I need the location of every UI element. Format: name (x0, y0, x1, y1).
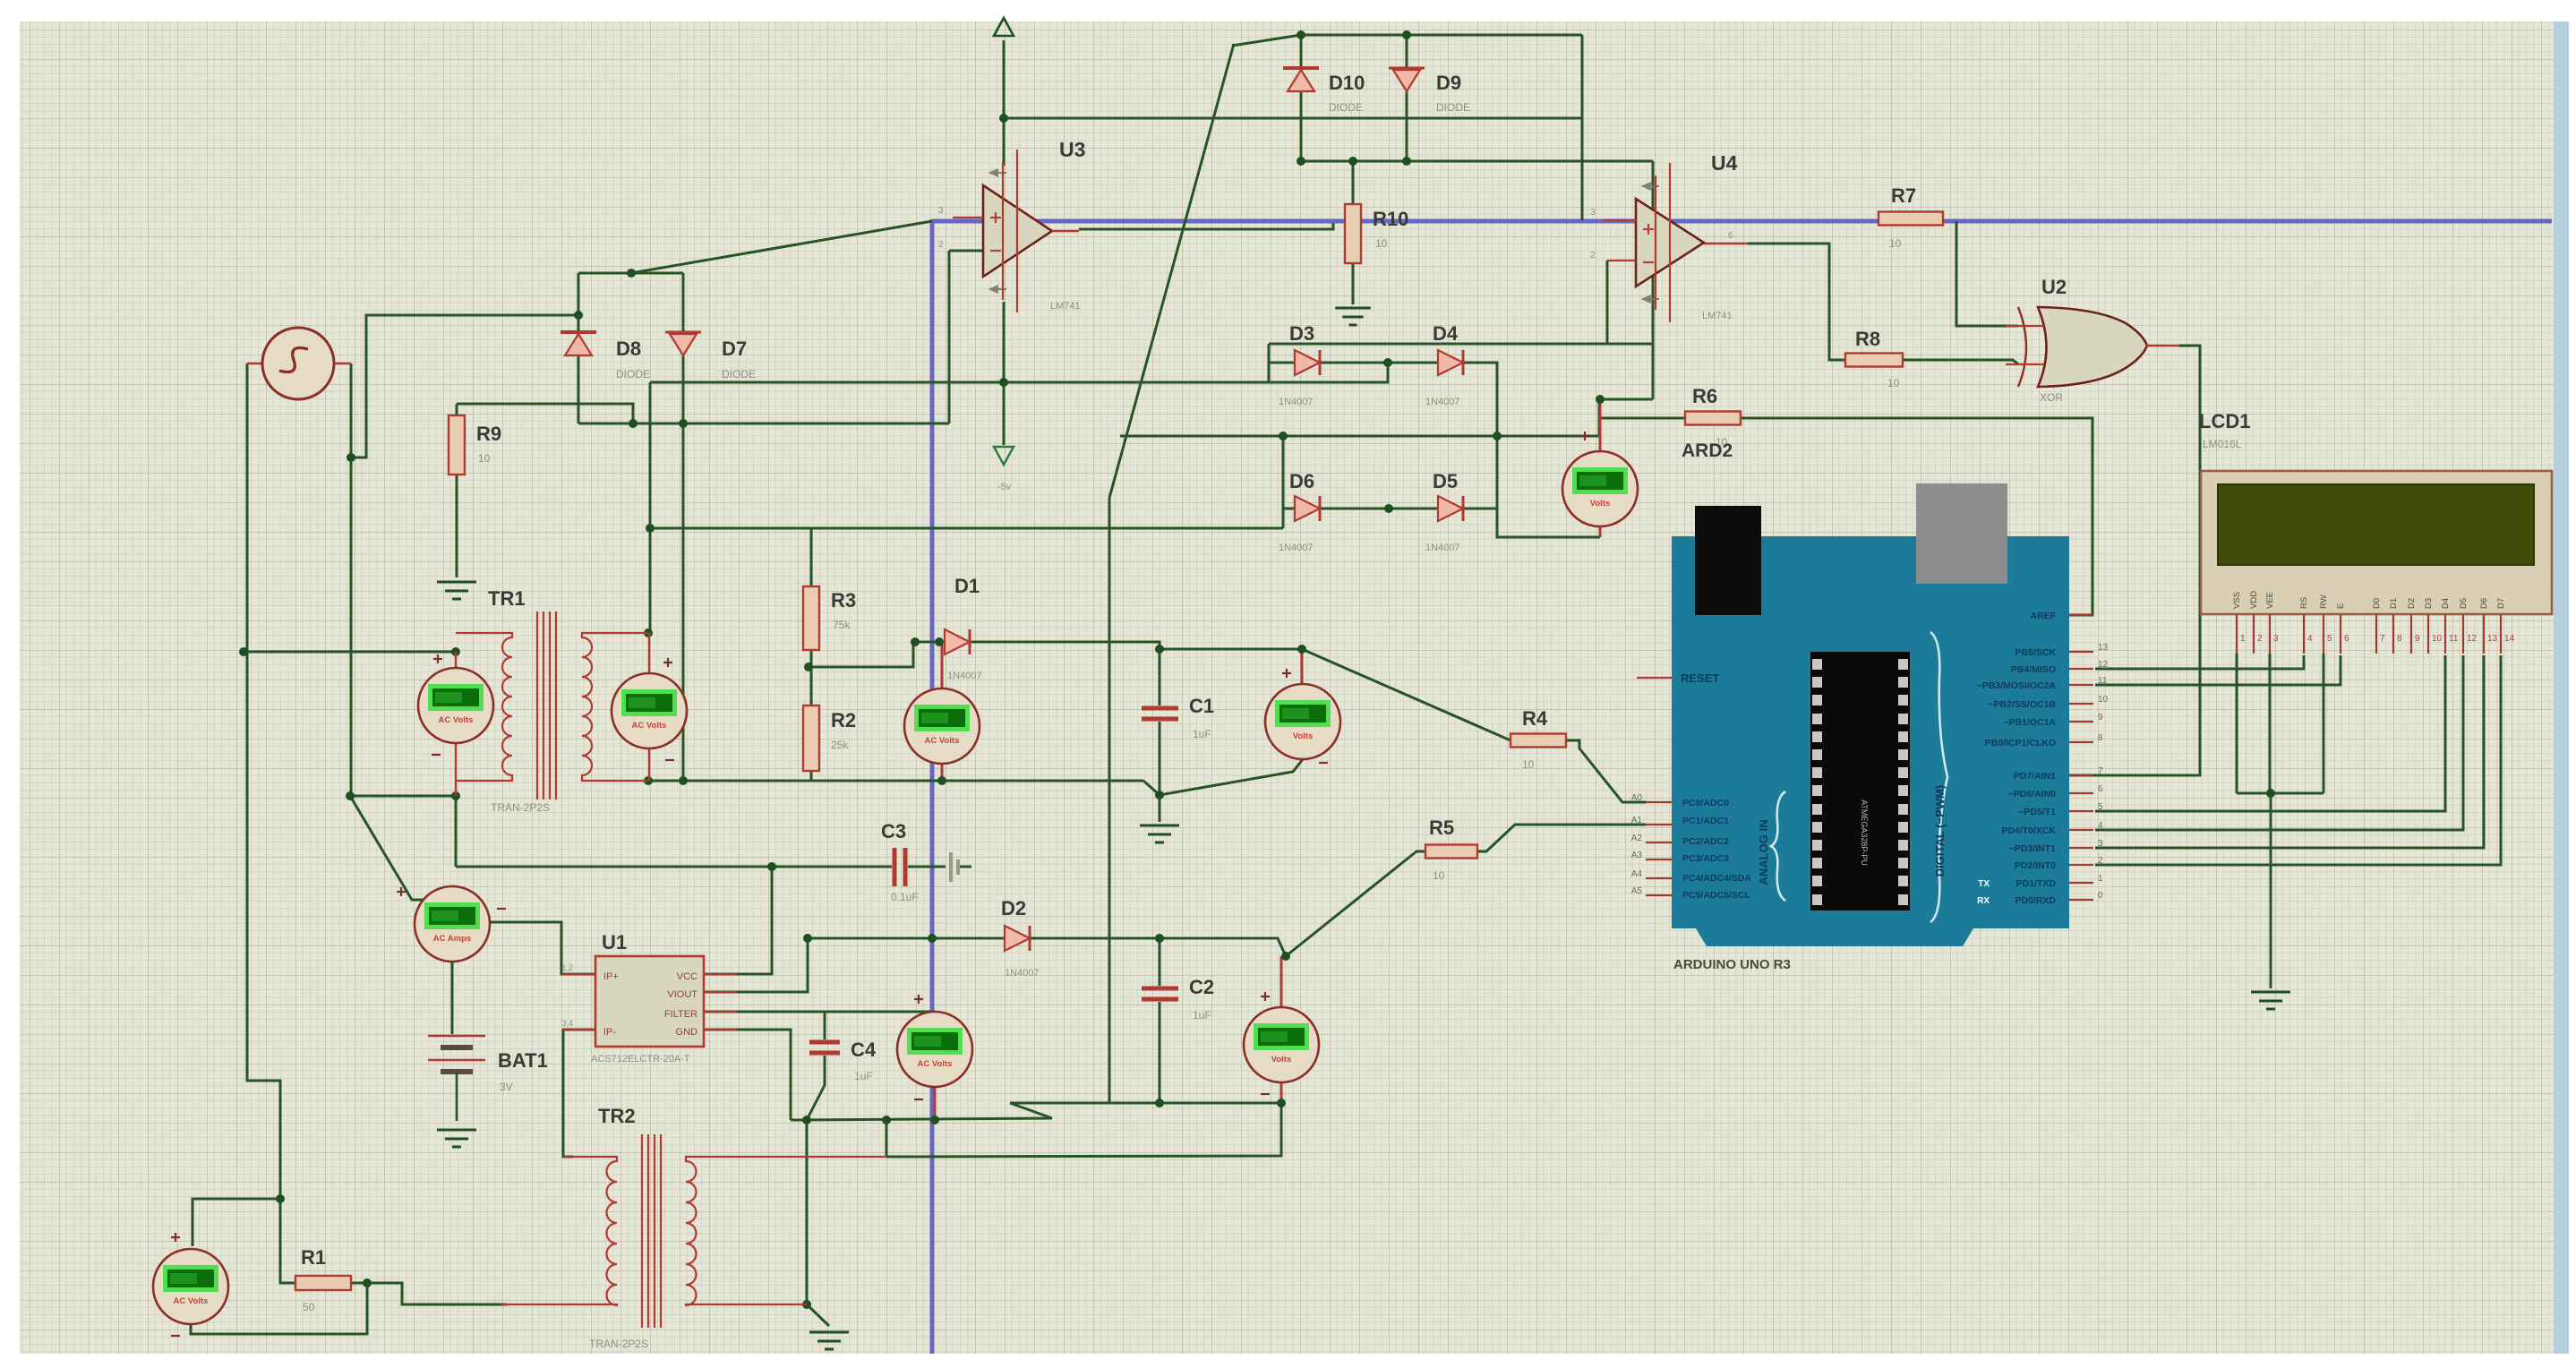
meter AC volts D1 (904, 688, 980, 764)
svg-text:GND: GND (676, 1027, 698, 1038)
wire junction at 763,473 (679, 419, 688, 428)
meter AC volts bottom left (153, 1249, 228, 1324)
svg-text:D2: D2 (1001, 897, 1026, 919)
wire C3 right stub (908, 866, 946, 868)
svg-text:~PB2/SS/OC1B: ~PB2/SS/OC1B (1988, 699, 2056, 710)
svg-text:10: 10 (1375, 237, 1388, 250)
svg-text:D3: D3 (2424, 598, 2434, 609)
svg-text:2: 2 (938, 240, 944, 250)
wire D8 D7 lower rail (578, 423, 949, 425)
wire TR1 secondary top riser (649, 382, 652, 633)
wire R9 top link (457, 404, 633, 423)
plus TR1 left meter (433, 654, 442, 663)
wire R7 to XOR input A (1956, 221, 2018, 326)
svg-text:R7: R7 (1891, 184, 1916, 207)
wire U3 VCC rail horizontal (1004, 117, 1582, 120)
svg-text:10: 10 (1887, 377, 1900, 389)
svg-text:AC Volts: AC Volts (632, 721, 667, 731)
wire TR1 bottom rail right (648, 780, 1143, 782)
diode D1 (945, 629, 970, 654)
svg-text:R10: R10 (1373, 208, 1408, 230)
plus AC amps meter (397, 887, 406, 896)
wire ARD2 meter top lead (1599, 399, 1602, 451)
wire U1 IPminus to TR2 (563, 1030, 595, 1157)
wire LCD ground rail (2237, 792, 2324, 795)
minus C4 meter (914, 1099, 923, 1100)
svg-text:R1: R1 (301, 1246, 326, 1269)
svg-text:A0: A0 (1631, 793, 1643, 803)
transformer TR2 (501, 1134, 886, 1328)
resistor R4 body (1511, 734, 1566, 748)
svg-text:D0: D0 (2372, 598, 2382, 609)
wire junction at 903,745 (804, 663, 813, 671)
svg-text:PB4/MISO: PB4/MISO (2011, 664, 2056, 675)
svg-text:5: 5 (2098, 802, 2103, 812)
svg-text:A5: A5 (1631, 886, 1643, 896)
svg-text:50: 50 (303, 1301, 315, 1313)
wire junction at 1041,1048 (928, 934, 937, 943)
wire junction at 763,872 (679, 776, 688, 785)
wire volts meter 2 top lead (1280, 956, 1283, 1007)
svg-text:3,4: 3,4 (561, 1019, 573, 1028)
svg-text:1uF: 1uF (854, 1070, 873, 1082)
svg-text:AREF: AREF (2030, 611, 2056, 621)
minus bottom left meter (171, 1335, 180, 1337)
wire +V rail to U3 power (1003, 40, 1006, 118)
svg-text:LM741: LM741 (1050, 301, 1081, 312)
diode D3 (1295, 350, 1320, 375)
meter AC volts TR1 right (612, 673, 687, 748)
wire C1 top lead (1159, 642, 1161, 705)
diode D10 (1283, 68, 1319, 91)
wire D10 bottom lead (1300, 90, 1303, 161)
wire R8 to XOR input B (1903, 360, 2018, 364)
wire D8 top lead (578, 273, 580, 332)
wire C1 rail to volts meter (1160, 648, 1302, 651)
wire to bottom meter plus (193, 1199, 280, 1246)
wire XOR output down to arduino pin 7 (2069, 346, 2200, 775)
svg-text:10: 10 (478, 452, 491, 465)
ground under R10 (1335, 308, 1371, 325)
svg-text:3: 3 (1590, 208, 1596, 218)
svg-text:RX: RX (1977, 896, 1990, 906)
capacitor C4 (809, 1042, 840, 1053)
svg-text:4: 4 (2307, 634, 2313, 644)
svg-text:R5: R5 (1429, 817, 1454, 839)
svg-text:1N4007: 1N4007 (1005, 968, 1040, 979)
svg-text:-5v: -5v (997, 482, 1012, 492)
wire junction at 313,1339 (276, 1194, 285, 1203)
svg-text:0.1uF: 0.1uF (891, 891, 919, 903)
resistor R5 body (1425, 845, 1477, 859)
svg-text:TX: TX (1978, 879, 1990, 889)
svg-text:VEE: VEE (2265, 592, 2275, 609)
wire U4 output stub (1704, 243, 1748, 244)
wire bridge D5 cathode (1463, 508, 1497, 510)
svg-text:PC4/ADC4/SDA: PC4/ADC4/SDA (1682, 873, 1751, 884)
wire AC meter C4 bottom lead (934, 1087, 937, 1120)
wire junction at 509,889 (451, 791, 460, 800)
svg-text:FILTER: FILTER (664, 1009, 697, 1020)
wire down to R1 (280, 1199, 295, 1283)
wire R6 left lead (1600, 417, 1685, 420)
svg-text:PC2/ADC2: PC2/ADC2 (1682, 836, 1729, 847)
wire TR1 right meter top lead (648, 633, 650, 674)
svg-text:PC3/ADC3: PC3/ADC3 (1682, 853, 1729, 864)
wire bridge mid rail (1120, 399, 1599, 436)
diode D6 (1295, 496, 1320, 521)
svg-text:7: 7 (2098, 766, 2103, 776)
wire TR2 ground branch (807, 1120, 829, 1326)
wire junction at 1433,487 (1279, 432, 1288, 440)
wire junction at 724,707 (644, 628, 653, 637)
wire U3 output run (1079, 223, 1333, 229)
wire R9 bottom lead (456, 475, 458, 577)
wire C4 bottom diag (807, 1056, 825, 1120)
svg-text:2: 2 (1590, 251, 1596, 261)
transformer TR1 (456, 611, 648, 799)
svg-text:PD1/TXD: PD1/TXD (2016, 878, 2057, 889)
wire U4 minus stub (1607, 260, 1636, 261)
svg-text:R6: R6 (1692, 385, 1717, 407)
svg-text:PC5/ADC5/SCL: PC5/ADC5/SCL (1682, 890, 1750, 901)
svg-text:1N4007: 1N4007 (1425, 397, 1460, 407)
wire R10 top lead (1352, 161, 1355, 204)
wire D1 output to C1 (970, 642, 1160, 649)
wire TR2 secondary to meter (1280, 1103, 1283, 1156)
wire bridge left post (1268, 344, 1271, 382)
wire R3 top lead (810, 528, 813, 586)
wire ARD2 meter bottom lead (1599, 526, 1602, 537)
resistor R9 body (449, 415, 465, 475)
op-amp U4 body (1636, 163, 1704, 322)
svg-text:DIGITAL (~PWM): DIGITAL (~PWM) (1933, 785, 1947, 876)
svg-text:E: E (2336, 603, 2346, 609)
wire D7 top lead (682, 273, 685, 332)
svg-text:D5: D5 (1433, 470, 1458, 492)
resistor R8 body (1845, 354, 1903, 367)
plus TR1 right meter (663, 658, 672, 667)
svg-text:3: 3 (2098, 839, 2103, 849)
power flag -5v arrow (994, 447, 1014, 465)
svg-text:R8: R8 (1855, 328, 1880, 350)
wire U3 negative power pin (1003, 302, 1006, 382)
wire junction at 990,1251 (882, 1116, 891, 1124)
wire R3 R2 link (810, 650, 813, 705)
diode D4 (1438, 350, 1463, 375)
svg-text:AC Volts: AC Volts (174, 1296, 209, 1306)
svg-text:D4: D4 (1433, 322, 1459, 345)
svg-text:U1: U1 (602, 931, 627, 953)
svg-text:6: 6 (2098, 784, 2103, 794)
svg-text:RESET: RESET (1681, 671, 1719, 685)
wire D10 D9 lower rail to U4 (1301, 160, 1653, 163)
wire junction at 901,1457 (802, 1300, 811, 1309)
svg-text:~PB1/OC1A: ~PB1/OC1A (2003, 717, 2056, 728)
wire arduino pin12 to LCD RS (2095, 655, 2304, 669)
svg-text:~PD5/T1: ~PD5/T1 (2018, 807, 2056, 817)
wire bridge top rail (1269, 343, 1653, 346)
ground LCD net (2251, 992, 2290, 1009)
wire LCD VEE down (2269, 654, 2272, 793)
plus C4 meter (914, 995, 923, 1004)
minus AC amps meter (497, 908, 506, 910)
svg-text:LM016L: LM016L (2203, 438, 2242, 450)
svg-text:Volts: Volts (1590, 499, 1611, 509)
wire bridge D6 D5 link (1320, 508, 1438, 510)
svg-text:~PD3/INT1: ~PD3/INT1 (2009, 843, 2056, 854)
wire VIOUT to D2 node (704, 938, 808, 992)
wire junction at 901,1251 (802, 1116, 811, 1124)
IC U1 ACS712 (595, 956, 704, 1047)
svg-text:PB5/SCK: PB5/SCK (2015, 647, 2056, 658)
svg-text:A4: A4 (1631, 869, 1643, 879)
svg-text:RW: RW (2319, 594, 2329, 609)
wire junction at 410,1433 (363, 1278, 372, 1287)
svg-text:2: 2 (2257, 634, 2263, 644)
battery BAT1 (428, 1036, 485, 1121)
wire C2 bottom run (1010, 1102, 1281, 1105)
wire AC amps meter bottom lead (451, 962, 454, 1034)
svg-text:Volts: Volts (1293, 731, 1314, 741)
wire LCD ground drop (2270, 793, 2272, 988)
wire diagonal to AC Amps meter (350, 796, 452, 900)
meter AC volts C4 (897, 1012, 972, 1087)
svg-text:D2: D2 (2407, 598, 2417, 609)
svg-text:6: 6 (1728, 231, 1733, 241)
svg-text:D7: D7 (2496, 598, 2506, 609)
svg-text:RS: RS (2299, 597, 2309, 609)
wire secondary to meter run (886, 1103, 1281, 1157)
wire D1 meter bottom lead (941, 764, 944, 781)
svg-text:BAT1: BAT1 (498, 1049, 548, 1072)
svg-text:AC Volts: AC Volts (918, 1059, 953, 1069)
svg-text:U4: U4 (1711, 151, 1738, 175)
svg-text:D1: D1 (2389, 598, 2399, 609)
svg-text:D3: D3 (1289, 322, 1314, 345)
wire D8 bottom lead (578, 355, 580, 423)
LCD1 module body (2201, 471, 2552, 614)
wire AC source left rail (247, 363, 280, 1199)
wire D2 anode run (808, 937, 1005, 940)
meter AC amps (415, 886, 490, 962)
wire FILTER to C4 (704, 1012, 825, 1039)
wire C3 right bracket stub (958, 866, 971, 868)
wire bridge D6 anode (1283, 508, 1295, 510)
arduino left pin stubs (1646, 802, 1672, 895)
svg-text:PD0/RXD: PD0/RXD (2015, 895, 2056, 906)
svg-text:C3: C3 (881, 820, 906, 842)
svg-text:D8: D8 (616, 338, 641, 360)
meter ARD2 volts (1562, 451, 1638, 526)
svg-text:DIODE: DIODE (1436, 101, 1470, 114)
svg-text:IP+: IP+ (603, 971, 619, 982)
wire bridge D3 D4 link (1320, 362, 1438, 364)
resistor R3 body (803, 586, 819, 650)
wire selected blue bus vertical (930, 219, 935, 1354)
LCD pin numbers (2240, 634, 2515, 644)
arduino right pin stubs (2069, 615, 2093, 900)
ground under C1 (1140, 825, 1179, 842)
wire R9 top lead (456, 404, 458, 415)
svg-text:0: 0 (2098, 891, 2103, 901)
svg-text:10: 10 (1433, 869, 1445, 882)
svg-text:1N4007: 1N4007 (1279, 543, 1314, 553)
capacitor C2 (1142, 988, 1178, 999)
wire R6 right to AREF (1741, 418, 2092, 615)
diode D9 (1389, 68, 1425, 91)
wire arduino pin5 to LCD D4 (2095, 655, 2445, 811)
wire sloped into U3 noninverting (631, 221, 932, 273)
wire U3 inverting stub (949, 250, 983, 252)
svg-text:14: 14 (2504, 634, 2515, 644)
svg-text:DIODE: DIODE (722, 368, 756, 380)
svg-text:AC Volts: AC Volts (925, 736, 960, 746)
wire D10 top lead (1300, 35, 1303, 68)
scrollbar strip right edge (2554, 21, 2569, 1354)
svg-text:12: 12 (2098, 660, 2109, 670)
wire D9 bottom lead (1406, 90, 1408, 161)
wire RESET stub (1637, 677, 1672, 679)
svg-text:ARDUINO UNO R3: ARDUINO UNO R3 (1673, 957, 1791, 972)
wire junction at 272,728 (239, 647, 248, 656)
svg-text:PB0/ICP1/CLKO: PB0/ICP1/CLKO (1985, 738, 2056, 748)
wire junction at 1295,888 (1155, 791, 1164, 799)
minus TR1 right meter (665, 759, 674, 761)
wire junction at 1295,1048 (1155, 934, 1164, 943)
wire TR1 left meter bottom lead (455, 742, 457, 796)
svg-text:9: 9 (2098, 713, 2103, 722)
svg-text:TR1: TR1 (488, 587, 526, 610)
wire bridge lower post (1282, 436, 1285, 528)
wire junction at 705,305 (627, 269, 636, 278)
wire -5v flag stem (1003, 382, 1006, 445)
svg-text:3V: 3V (500, 1081, 513, 1093)
wire arduino pin3 to LCD D6 (2095, 655, 2484, 848)
wire D2 cathode to C2 (1029, 937, 1160, 940)
wire U4 output (1748, 244, 1845, 360)
resistor R10 body (1345, 204, 1361, 263)
wire junction at 646,352 (574, 311, 583, 320)
svg-text:12: 12 (2467, 634, 2478, 644)
wire junction to D1 (809, 642, 939, 667)
wire C2 to meter junction (1160, 938, 1286, 956)
wire junction at 1052,872 (937, 776, 946, 785)
wire LCD RW down (2323, 654, 2325, 793)
meter volts lower (1244, 1007, 1319, 1082)
svg-text:2: 2 (2098, 856, 2103, 866)
wire R3 feed rail (650, 527, 1283, 530)
svg-text:75k: 75k (833, 619, 851, 631)
wire R2 bottom lead (810, 771, 813, 781)
wire TR2 secondary top riser (886, 1120, 888, 1157)
diode D8 (561, 332, 596, 355)
XOR gate U2 (2006, 307, 2179, 387)
svg-text:ACS712ELCTR-20A-T: ACS712ELCTR-20A-T (591, 1054, 690, 1064)
svg-text:10: 10 (2432, 634, 2443, 644)
wire AC source to D8 junction (351, 315, 578, 457)
svg-text:11: 11 (2449, 634, 2459, 644)
op-amp U3 body (983, 150, 1052, 312)
wire D1 meter top lead (941, 642, 944, 688)
wire U3 output stub (1052, 230, 1079, 232)
wire R4 to A0 (1566, 740, 1646, 802)
wire U3 positive power pin (1003, 118, 1006, 166)
svg-text:3: 3 (2273, 634, 2279, 644)
ground under R9 (437, 582, 476, 599)
resistor R6 body (1685, 412, 1741, 425)
resistor R2 body (803, 705, 819, 771)
svg-text:VCC: VCC (677, 971, 697, 982)
svg-text:XOR: XOR (2040, 391, 2063, 404)
svg-text:PC1/ADC1: PC1/ADC1 (1682, 816, 1729, 826)
svg-text:PD2/INT0: PD2/INT0 (2015, 860, 2056, 871)
wire U4 inverting loop (1606, 261, 1609, 344)
svg-text:1: 1 (2098, 874, 2103, 884)
wire long diagonal from top rail (1109, 44, 1234, 498)
svg-text:ATMEGA328P-PU: ATMEGA328P-PU (1860, 799, 1869, 866)
svg-text:1,2: 1,2 (561, 963, 573, 972)
wire U4 right vertical (1652, 161, 1655, 399)
wire junction at 1295,725 (1155, 645, 1164, 654)
wire Z jog to C2 line (1010, 1103, 1052, 1118)
svg-text:PD4/T0/XCK: PD4/T0/XCK (2001, 825, 2056, 836)
wire bridge D3 anode (1269, 362, 1295, 364)
wire C2 top lead (1159, 938, 1161, 986)
svg-text:R9: R9 (476, 423, 501, 445)
wire junction at 707,473 (629, 419, 638, 428)
resistor R7 body (1879, 212, 1943, 226)
wire junction at 726,590 (646, 524, 655, 533)
wire FILTER on to AC meter (825, 1011, 935, 1013)
svg-text:R4: R4 (1522, 707, 1548, 730)
svg-text:ANALOG IN: ANALOG IN (1757, 820, 1770, 885)
wire junction at 1454,725 (1297, 645, 1306, 654)
wire R5 to A1 (1476, 825, 1646, 851)
svg-text:D5: D5 (2459, 598, 2469, 609)
wire long vertical continuation (1108, 498, 1111, 1103)
wire junction at 902,1048 (803, 934, 812, 943)
diode D2 (1005, 926, 1030, 951)
wire VCC riser (704, 867, 772, 974)
minus TR1 left meter (432, 754, 441, 756)
digital pin labels (1977, 611, 2057, 906)
wire junction at 509,728 (451, 647, 460, 656)
power flag +V (994, 18, 1014, 36)
wire junction at 1511,180 (1348, 157, 1357, 166)
plus ARD2 meter (1580, 432, 1589, 440)
diode D7 (665, 332, 701, 355)
svg-text:C4: C4 (851, 1039, 877, 1061)
svg-text:VDD: VDD (2249, 591, 2259, 609)
arduino right pin numbers (2098, 643, 2109, 901)
wire AC source right rail down (350, 363, 353, 796)
svg-text:IP-: IP- (603, 1027, 616, 1038)
capacitor C1 (1142, 708, 1178, 719)
wire junction at 1672,487 (1493, 432, 1502, 440)
diode D5 (1438, 496, 1463, 521)
wire R1 right junction (351, 1282, 367, 1285)
wire U3 plus stub (953, 217, 983, 218)
wire U4 plus stub (1603, 219, 1636, 221)
svg-text:~PB3/MOSI/OC2A: ~PB3/MOSI/OC2A (1977, 680, 2057, 691)
svg-text:D1: D1 (954, 575, 980, 597)
wire TR1 right meter bottom lead (648, 748, 650, 781)
arduino left pin names (1631, 793, 1643, 896)
svg-text:DIODE: DIODE (616, 368, 650, 380)
wire meter link down (455, 796, 458, 867)
svg-text:5: 5 (2327, 634, 2332, 644)
